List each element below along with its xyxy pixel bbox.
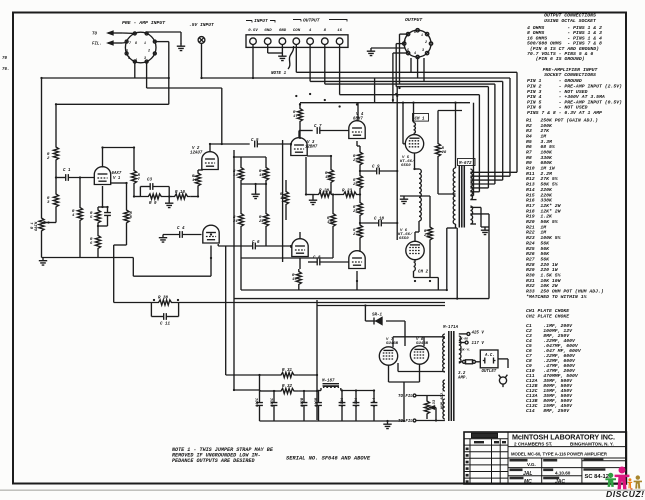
svg-text:15: 15 (259, 174, 264, 178)
output octal socket (403, 29, 433, 59)
svg-text:R11 2.2M: R11 2.2M (526, 171, 553, 177)
svg-text:R8 330K: R8 330K (526, 155, 553, 161)
ground under gain pot (39, 258, 47, 266)
svg-text:70: 70 (2, 57, 8, 61)
svg-text:PEDANCE OUTPUTS ARE DESIRED: PEDANCE OUTPUTS ARE DESIRED (172, 458, 255, 464)
svg-text:OUTPUT: OUTPUT (405, 17, 423, 23)
title block values (523, 462, 612, 485)
svg-text:R7 100K: R7 100K (526, 150, 553, 156)
capacitor C2 (104, 213, 111, 216)
svg-text:M-672: M-672 (458, 162, 472, 166)
svg-text:19: 19 (327, 221, 332, 225)
resistor R4 (77, 205, 82, 223)
resistor R2 (53, 143, 58, 164)
svg-text:29: 29 (424, 234, 429, 238)
svg-text:MC: MC (524, 479, 532, 485)
svg-text:22: 22 (259, 220, 264, 224)
ground at secondary (481, 227, 489, 235)
ground mid bank (251, 191, 259, 199)
tube V5 KT-66 (405, 135, 423, 153)
svg-text:R33 250 OHM POT (HUM ADJ.): R33 250 OHM POT (HUM ADJ.) (526, 289, 604, 295)
svg-text:R 31: R 31 (282, 369, 293, 373)
resistor R29 (427, 226, 432, 241)
svg-text:CH 1: CH 1 (415, 118, 426, 122)
output transformer secondary upper (470, 169, 472, 200)
svg-text:PIN 4 - +360V AT 3.5MA: PIN 4 - +360V AT 3.5MA (527, 94, 605, 100)
choke CH1 coil (414, 123, 416, 134)
svg-text:0.5V: 0.5V (248, 29, 258, 33)
svg-text:18: 18 (325, 176, 330, 180)
svg-text:6: 6 (404, 41, 406, 45)
svg-text:C 1: C 1 (63, 169, 71, 173)
discuz watermark: magenta figure (615, 467, 630, 490)
svg-text:17: 17 (293, 115, 298, 119)
svg-text:28: 28 (442, 151, 447, 155)
svg-text:R25 56K: R25 56K (526, 246, 550, 252)
svg-text:OUTPUT: OUTPUT (303, 18, 320, 24)
wire: power transformer section (416, 334, 508, 421)
power transformer primary winding (443, 334, 445, 372)
svg-text:(PIN 6 IS CT AND GROUND): (PIN 6 IS CT AND GROUND) (527, 46, 599, 52)
ground jumper between gnd terminals (278, 53, 286, 61)
svg-text:12AU7: 12AU7 (190, 152, 203, 156)
resistor R16 (283, 187, 288, 209)
ground at cathode winding (400, 196, 408, 204)
resistor R18 (328, 167, 333, 185)
svg-text:GND: GND (279, 29, 287, 33)
svg-text:425 V: 425 V (472, 332, 485, 336)
svg-text:JAL: JAL (523, 471, 532, 477)
svg-text:R30 1.5K 5%: R30 1.5K 5% (526, 273, 562, 279)
svg-text:V.G.: V.G. (527, 462, 536, 467)
svg-text:3: 3 (422, 49, 424, 53)
svg-text:M-187: M-187 (321, 380, 335, 384)
svg-text:NOTE 1: NOTE 1 (271, 72, 287, 76)
svg-text:SOCKET CONNECTIONS: SOCKET CONNECTIONS (544, 72, 596, 78)
svg-text:AMP.: AMP. (457, 377, 468, 381)
svg-text:5U4GB: 5U4GB (416, 342, 429, 346)
wire: v3 stage (241, 103, 397, 290)
svg-text:R23 100K 5%: R23 100K 5% (526, 235, 562, 241)
svg-text:3.2: 3.2 (458, 372, 466, 376)
wire: b+ rails and feedback (114, 290, 489, 421)
title block cell labels (dark) (510, 459, 606, 480)
svg-text:CH1 PLATE CHOKE: CH1 PLATE CHOKE (526, 308, 569, 314)
svg-text:.5V INPUT: .5V INPUT (189, 22, 214, 28)
ground at R20 (309, 197, 317, 205)
svg-text:R16 330K: R16 330K (526, 198, 553, 204)
svg-text:6: 6 (90, 242, 93, 246)
choke CH2 coil + label (414, 262, 416, 271)
svg-text:(PIN 6 IS GROUND): (PIN 6 IS GROUND) (527, 56, 585, 62)
svg-text:SERIAL NO. SF646 AND ABOVE: SERIAL NO. SF646 AND ABOVE (286, 456, 371, 462)
svg-text:R31 10K 10W: R31 10K 10W (526, 278, 562, 284)
svg-text:1: 1 (421, 34, 423, 38)
revision table row marks (466, 441, 506, 483)
svg-text:8: 8 (414, 31, 416, 35)
page edge artifact (0, 489, 645, 491)
svg-text:8 OHMS - PINS 1 & 3: 8 OHMS - PINS 1 & 3 (527, 30, 602, 36)
svg-text:V 4: V 4 (356, 113, 364, 117)
svg-text:70.7 VOLTS - PINS 5 & 6: 70.7 VOLTS - PINS 5 & 6 (527, 51, 593, 57)
svg-text:R27 56K: R27 56K (526, 257, 550, 263)
svg-text:R29 220 1W: R29 220 1W (526, 267, 559, 273)
note 1 jumper squiggle (288, 46, 294, 69)
resistor R6 (95, 234, 100, 250)
resistor R14 (238, 164, 243, 184)
resistor R27 (357, 224, 362, 239)
resistor R28 (435, 142, 440, 158)
wire: output stage (397, 103, 470, 290)
425v tap (467, 332, 470, 335)
svg-text:V 1: V 1 (113, 177, 121, 181)
svg-text:GND: GND (264, 29, 272, 33)
svg-text:C 11: C 11 (160, 323, 171, 327)
power transformer core (449, 331, 454, 421)
svg-text:5: 5 (128, 57, 130, 61)
wire: output transformer taps (447, 103, 517, 299)
svg-text:12BH7: 12BH7 (305, 146, 318, 150)
svg-text:R22 1M: R22 1M (526, 230, 547, 236)
tube V3 lower (292, 239, 308, 257)
svg-text:USING OCTAL SOCKET: USING OCTAL SOCKET (544, 18, 597, 24)
ground at C3/R9 (165, 200, 173, 208)
rectifier tube V7 5U4GB (379, 347, 397, 365)
svg-text:2: 2 (47, 157, 50, 161)
svg-text:27: 27 (353, 233, 358, 237)
fuse 3.2 amp (463, 360, 476, 364)
choke CH1 label (413, 114, 429, 122)
svg-text:C14 8MF, 250V: C14 8MF, 250V (526, 408, 570, 414)
svg-text:R24 56K: R24 56K (526, 240, 550, 246)
svg-text:R15 220K: R15 220K (526, 192, 553, 198)
svg-text:SR-1: SR-1 (372, 314, 383, 318)
power transformer heater winding (443, 399, 445, 419)
svg-text:25: 25 (353, 210, 358, 214)
svg-text:R32 10K 2W: R32 10K 2W (526, 283, 559, 289)
svg-text:8: 8 (324, 29, 327, 33)
svg-text:2 CHAMBERS ST.: 2 CHAMBERS ST. (514, 441, 552, 446)
svg-text:R17 12K* 2W: R17 12K* 2W (526, 203, 562, 209)
svg-text:6550: 6550 (399, 237, 409, 241)
svg-text:16 OHMS - PINS 1 & 4: 16 OHMS - PINS 1 & 4 (527, 35, 602, 41)
resistor R22 (263, 210, 268, 230)
svg-text:8: 8 (130, 216, 133, 220)
svg-text:R1 250K POT (GAIN ADJ.): R1 250K POT (GAIN ADJ.) (526, 117, 598, 123)
ac outlet (480, 350, 498, 368)
svg-text:CH 2: CH 2 (418, 271, 429, 275)
svg-text:R21 1M: R21 1M (526, 224, 547, 230)
parts list: chokes CH1 CH2 (526, 308, 569, 319)
svg-text:BK-RD: BK-RD (459, 338, 468, 341)
output transformer core (459, 166, 464, 228)
svg-text:BK-YL: BK-YL (461, 349, 470, 352)
wire: v2 stage (133, 144, 291, 375)
svg-text:R13 50K 5%: R13 50K 5% (526, 182, 559, 188)
resistor R25 (357, 201, 362, 217)
svg-text:PIN 1 - GROUND: PIN 1 - GROUND (527, 78, 582, 84)
svg-text:McINTOSH LABORATORY INC.: McINTOSH LABORATORY INC. (512, 433, 615, 442)
svg-text:MODEL MC-60, TYPE A-116 POWER: MODEL MC-60, TYPE A-116 POWER AMPLIFIER (511, 451, 608, 456)
svg-text:1: 1 (144, 42, 146, 46)
svg-text:PIN 5 - PRE-AMP INPUT (0.: PIN 5 - PRE-AMP INPUT (0.5V) (527, 99, 622, 105)
svg-text:R14 220K: R14 220K (526, 187, 553, 193)
svg-text:CH2 PLATE CHOKE: CH2 PLATE CHOKE (526, 313, 569, 319)
svg-text:CON: CON (293, 29, 301, 33)
svg-text:5: 5 (90, 216, 93, 220)
svg-text:V 2: V 2 (192, 147, 200, 151)
resistor R8 (124, 207, 129, 226)
tube V6 KT-66 (406, 241, 424, 259)
svg-text:R5 3.3M: R5 3.3M (526, 139, 553, 145)
resistor R3 (53, 189, 58, 212)
svg-text:R26 56K: R26 56K (526, 251, 550, 257)
svg-text:V 3: V 3 (307, 141, 315, 145)
svg-text:R20 56K 5%: R20 56K 5% (526, 219, 559, 225)
svg-text:19: 19 (292, 278, 297, 282)
svg-text:OUTPUT CONNECTIONS: OUTPUT CONNECTIONS (544, 13, 596, 19)
svg-text:R 32: R 32 (282, 385, 293, 389)
tube V4 6BH7 upper (349, 121, 365, 139)
output transformer M-672 primary (453, 168, 455, 224)
svg-text:PIN 3 - NOT USED: PIN 3 - NOT USED (527, 89, 588, 95)
ground at C4 (159, 235, 167, 243)
svg-text:C3: C3 (147, 179, 153, 183)
svg-text:INPUT: INPUT (254, 18, 268, 24)
svg-text:R4 1M: R4 1M (526, 133, 547, 139)
svg-text:R18 12K* 2W: R18 12K* 2W (526, 208, 562, 214)
resistor R26 (357, 174, 362, 190)
svg-text:76.: 76. (2, 68, 10, 72)
resistor R19 lower (330, 212, 335, 228)
svg-text:R3 27K: R3 27K (526, 128, 550, 134)
discuz watermark: tan figure (634, 475, 642, 488)
svg-text:TO: TO (92, 33, 97, 37)
wire: v4 stage (357, 78, 397, 290)
rectifier tube V8 5U4GB (410, 346, 428, 364)
tube V1 6AX7 (94, 167, 110, 185)
svg-text:R6 68 5%: R6 68 5% (526, 144, 556, 150)
svg-text:A.C.: A.C. (484, 354, 495, 358)
svg-text:R 9: R 9 (149, 202, 157, 206)
svg-text:BINGHAMTON, N. Y.: BINGHAMTON, N. Y. (570, 441, 614, 446)
discuz watermark: small orange figure (628, 478, 633, 488)
power transformer bias winding (443, 380, 445, 391)
svg-text:HUM ADJ.: HUM ADJ. (441, 391, 445, 409)
to-fil arrows (preamp heater) (108, 31, 122, 45)
to fil terminals (413, 394, 416, 422)
resistor R21 (238, 210, 243, 230)
svg-text:R28 220 1W: R28 220 1W (526, 262, 559, 268)
svg-text:4: 4 (414, 52, 416, 56)
resistor R19b (296, 269, 301, 287)
power plug (499, 375, 508, 387)
tube V2 12AU7 upper (202, 152, 218, 170)
svg-text:PRE-AMPLIFIER INPUT: PRE-AMPLIFIER INPUT (543, 67, 599, 73)
input/output terminal strip (246, 35, 348, 48)
output transformer secondary lower (470, 206, 472, 224)
svg-text:FIL.: FIL. (92, 43, 102, 47)
title block company name (511, 433, 615, 457)
power transformer hv secondary (459, 336, 461, 363)
svg-text:6550: 6550 (401, 164, 411, 168)
svg-text:26: 26 (353, 183, 358, 187)
svg-text:PIN 6 - NOT USED: PIN 6 - NOT USED (527, 105, 588, 111)
output transformer M-672 label (458, 159, 476, 166)
svg-text:*MATCHED TO WITHIN 1%: *MATCHED TO WITHIN 1% (526, 294, 588, 300)
svg-text:16: 16 (337, 29, 342, 33)
svg-text:7: 7 (138, 178, 141, 182)
resistor R15 (263, 164, 268, 184)
svg-text:24: 24 (353, 159, 358, 163)
svg-text:3: 3 (144, 57, 146, 61)
svg-text:JAC: JAC (555, 479, 565, 485)
svg-text:R10 1M 1W: R10 1M 1W (526, 166, 556, 172)
svg-text:OUTLET: OUTLET (482, 370, 497, 374)
svg-text:PRE - AMP INPUT: PRE - AMP INPUT (122, 20, 166, 26)
revision table (left of title block) (472, 433, 498, 438)
svg-text:M-171A: M-171A (442, 326, 459, 330)
resistor R24 (357, 150, 362, 167)
svg-text:11: 11 (192, 179, 197, 183)
svg-text:R19 1.2K: R19 1.2K (526, 214, 553, 220)
title block frame (464, 432, 626, 484)
note 1 text (bottom left) (172, 447, 274, 464)
pot R33 hum adj (424, 396, 434, 419)
wire: v1 input stage (42, 104, 199, 302)
pre-amp input socket J1 (125, 32, 156, 63)
potentiometer R1 (gain) (39, 217, 48, 232)
svg-text:C 7: C 7 (314, 125, 322, 129)
svg-text:5U4GB: 5U4GB (386, 342, 399, 346)
tube V3 12BH7 upper (291, 138, 307, 156)
svg-text:TO FIL.: TO FIL. (398, 395, 415, 399)
svg-text:4 OHMS - PINS 1 & 2: 4 OHMS - PINS 1 & 2 (527, 25, 602, 31)
resistor R9 (140, 194, 169, 199)
svg-text:4: 4 (309, 29, 312, 33)
svg-text:4: 4 (72, 214, 75, 218)
svg-text:6: 6 (126, 50, 128, 54)
svg-text:2: 2 (148, 50, 150, 54)
resistor R7 (131, 169, 136, 185)
wire: top section (42, 32, 518, 217)
tube V2 12AU7 lower (203, 225, 219, 243)
svg-text:PINS 7 & 8 - 6.3V AT 1 AMP: PINS 7 & 8 - 6.3V AT 1 AMP (527, 110, 602, 116)
svg-text:7: 7 (129, 42, 132, 46)
cathode winding (419, 169, 421, 221)
svg-text:3: 3 (47, 201, 50, 205)
svg-text:R2 100K: R2 100K (526, 123, 553, 129)
resistor R17 (297, 103, 302, 127)
svg-text:C 4: C 4 (177, 227, 185, 231)
svg-text:R9 680K: R9 680K (526, 160, 553, 166)
svg-text:500/600 OHMS - PINS 7 & 8: 500/600 OHMS - PINS 7 & 8 (527, 41, 602, 47)
svg-text:4.10.60: 4.10.60 (555, 471, 571, 476)
svg-text:6AX7: 6AX7 (112, 172, 122, 176)
tube V4 lower (349, 251, 365, 269)
ground under preamp wire (177, 32, 185, 51)
ground at psu (383, 421, 391, 429)
svg-text:8: 8 (135, 42, 137, 46)
parts list: capacitors C1-C14 (526, 323, 582, 414)
wire: phase inverter bank (234, 140, 286, 390)
parts list: resistors R1-R33 (526, 117, 604, 300)
resistor R5 (95, 207, 100, 226)
svg-text:2: 2 (425, 41, 427, 45)
parts list: output/input connection notes (527, 13, 622, 117)
svg-text:PIN 2 - PRE-AMP INPUT (2.: PIN 2 - PRE-AMP INPUT (2.5V) (527, 84, 622, 90)
chassis ground near output socket (367, 48, 375, 56)
svg-text:117 V: 117 V (472, 342, 485, 346)
svg-text:GAIN: GAIN (35, 221, 39, 231)
svg-text:R12 27K 5%: R12 27K 5% (526, 176, 559, 182)
resistor R11 (195, 170, 200, 189)
117v tap (465, 341, 468, 344)
discuz watermark: green figure (605, 467, 644, 500)
wire: filter section (226, 375, 404, 421)
